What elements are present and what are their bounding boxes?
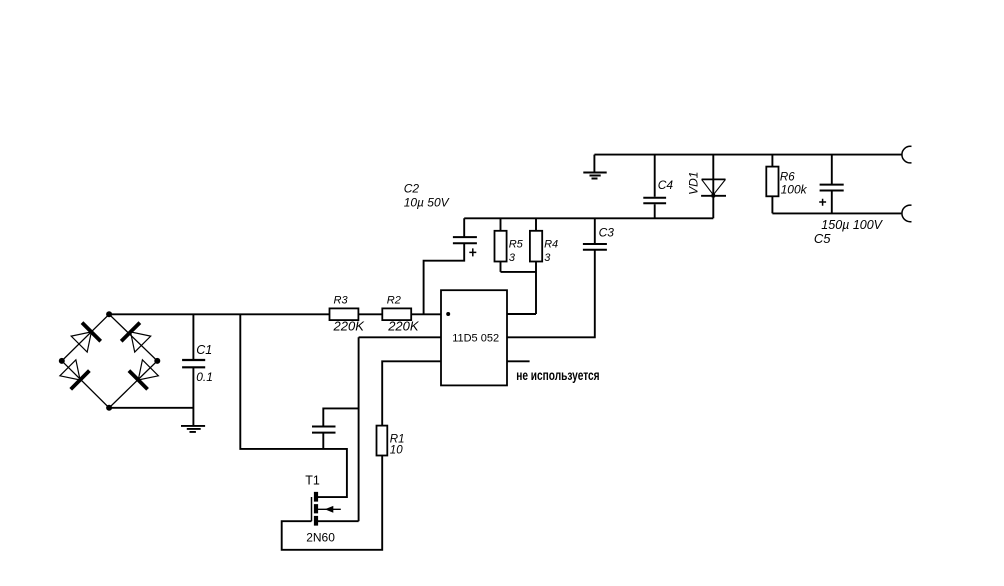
svg-text:220K: 220K [333, 319, 366, 334]
svg-text:3: 3 [509, 252, 516, 264]
svg-text:C1: C1 [196, 343, 212, 357]
svg-text:2N60: 2N60 [306, 531, 335, 545]
svg-text:R2: R2 [387, 295, 401, 307]
svg-text:не используется: не используется [516, 367, 599, 383]
svg-text:3: 3 [544, 252, 551, 264]
svg-text:C5: C5 [814, 231, 831, 246]
svg-text:C3: C3 [599, 226, 615, 240]
svg-text:VD1: VD1 [687, 172, 701, 195]
svg-text:10: 10 [390, 444, 403, 456]
svg-text:R3: R3 [334, 295, 349, 307]
svg-text:R4: R4 [544, 239, 558, 251]
svg-text:10µ 50V: 10µ 50V [404, 195, 450, 209]
svg-text:100k: 100k [781, 182, 808, 196]
svg-text:11D5 052: 11D5 052 [452, 333, 499, 345]
svg-text:C4: C4 [658, 178, 674, 192]
svg-text:C2: C2 [404, 181, 420, 195]
svg-text:R5: R5 [509, 239, 524, 251]
svg-text:T1: T1 [305, 473, 320, 487]
svg-text:220K: 220K [387, 319, 420, 334]
svg-text:150µ 100V: 150µ 100V [821, 218, 883, 232]
svg-text:0.1: 0.1 [196, 370, 213, 384]
